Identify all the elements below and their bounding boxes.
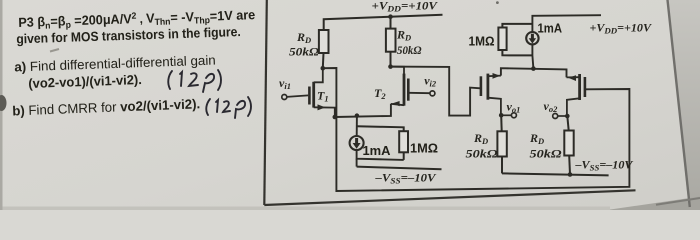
problem text line a) <box>14 52 216 74</box>
stub RD2 bottom <box>390 52 392 67</box>
junction dot vo1 <box>499 113 504 118</box>
tail rail stage 2 <box>501 68 567 77</box>
circuit box left border <box>264 0 267 205</box>
junction dot T1 drain <box>321 66 326 71</box>
wire T2 gate to vi2 <box>409 92 430 94</box>
output terminal vo1 <box>501 100 520 118</box>
transistor T3 (left PMOS) <box>481 74 501 116</box>
svg-text:50kΩ: 50kΩ <box>397 43 422 57</box>
junction dot VSS rail 2 <box>568 172 573 177</box>
handwritten (12P) mark b <box>206 97 251 118</box>
svg-text:1MΩ: 1MΩ <box>469 35 495 49</box>
wire I1 bottom <box>357 150 404 160</box>
VSS rail stage2 <box>502 173 609 175</box>
dark blob left edge <box>0 95 7 111</box>
T2 source arrow <box>392 101 399 106</box>
circuit box bottom border <box>264 190 635 205</box>
current source I2 1mA (top right) <box>526 32 538 44</box>
bottom shadow band left <box>0 207 610 211</box>
bias resistor RM2 1M (top right) <box>498 24 532 56</box>
VSS hook stage1 <box>356 159 358 167</box>
junction dot T2 drain <box>388 64 393 69</box>
current source I1 1mA (tail stage1) <box>350 116 364 150</box>
input terminal vi2 <box>424 74 437 96</box>
stub RD1 bottom <box>322 53 325 68</box>
wire I2 to VDD <box>532 15 601 32</box>
T4 source arrow <box>568 75 576 81</box>
wire T1 drain to T4 gate (long routed wire) <box>323 68 630 191</box>
paper right edge line <box>667 0 690 207</box>
resistor RD2 <box>386 29 396 52</box>
transistor T2 <box>391 67 409 106</box>
junction dot T1 source tail <box>333 115 338 120</box>
problem text line 1 <box>18 7 255 32</box>
desk area right of paper edge <box>667 0 700 210</box>
resistor RM1 1M tail <box>357 126 408 160</box>
photo speck <box>496 1 499 4</box>
transistor T1 <box>309 68 334 117</box>
svg-text:–VSS=–10V: –VSS=–10V <box>374 171 436 186</box>
svg-text:50kΩ: 50kΩ <box>466 147 498 161</box>
problem text line a2 <box>28 72 142 91</box>
svg-text:50kΩ: 50kΩ <box>530 147 562 161</box>
svg-text:50kΩ: 50kΩ <box>289 45 319 59</box>
svg-text:+VDD=+10V: +VDD=+10V <box>372 0 439 14</box>
problem text line b) <box>12 96 200 118</box>
junction dot tail 1 <box>355 113 360 118</box>
paper bottom-right edge line <box>656 198 700 205</box>
T1 source arrow <box>318 104 326 110</box>
T3 source arrow <box>493 73 501 79</box>
transistor T4 (right PMOS) <box>567 74 585 116</box>
wire T2 drain to T3 gate <box>391 67 481 116</box>
VSS rail stage1 <box>357 167 442 170</box>
junction dot vo2 <box>565 114 570 119</box>
resistor RD1 <box>319 17 391 53</box>
svg-text:+VDD=+10V: +VDD=+10V <box>590 22 653 36</box>
svg-text:–VSS=–10V: –VSS=–10V <box>574 158 633 173</box>
tail rail stage 1 <box>335 104 391 117</box>
output terminal vo2 <box>544 99 568 119</box>
left photo edge sliver <box>0 0 3 210</box>
svg-text:1mA: 1mA <box>538 22 563 36</box>
VDD rail (first stage) <box>324 15 443 30</box>
svg-text:1MΩ: 1MΩ <box>410 142 438 156</box>
pencil mark <box>50 49 59 52</box>
junction dot VDD rail <box>388 14 393 19</box>
input terminal vi1 <box>279 76 291 100</box>
desk area below paper bottom edge <box>600 197 700 212</box>
junction dot tail 2 <box>531 66 536 71</box>
wire vi1 to T1 gate <box>287 95 308 97</box>
resistor RD4 <box>564 116 573 174</box>
problem text line 2 <box>16 24 241 46</box>
resistor RD3 <box>497 115 506 173</box>
wire I2 bottom to tail2 <box>532 44 533 68</box>
handwritten (12P) mark a <box>168 70 221 92</box>
svg-text:1mA: 1mA <box>363 144 391 158</box>
